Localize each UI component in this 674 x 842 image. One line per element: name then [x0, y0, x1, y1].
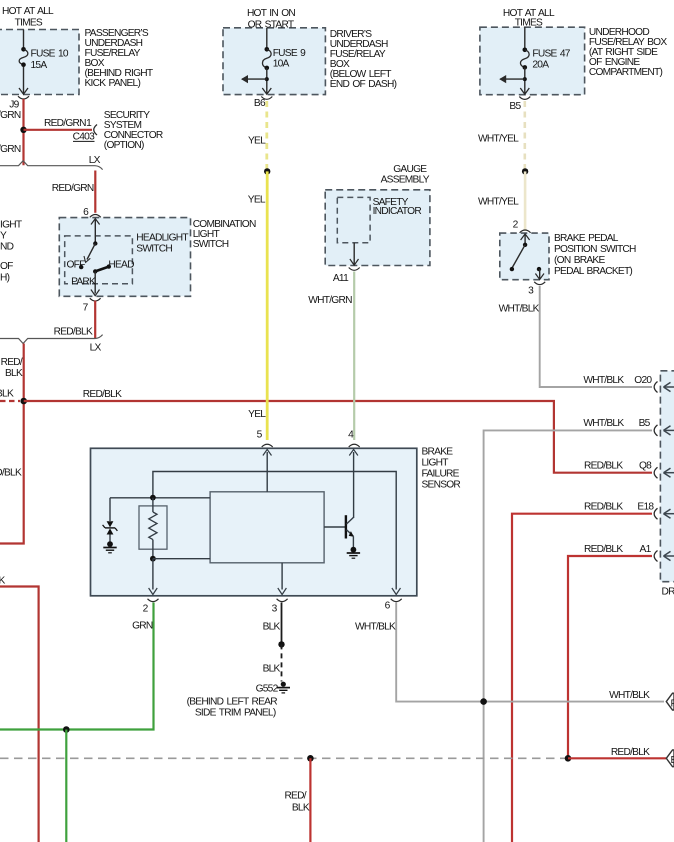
svg-text:WHT/BLK: WHT/BLK: [355, 622, 396, 633]
brake pedal position switch box: [500, 233, 549, 280]
junction main: [20, 398, 27, 405]
svg-text:KICK PANEL): KICK PANEL): [85, 78, 141, 89]
connector pin 7: [83, 298, 101, 313]
svg-text:E18: E18: [637, 502, 654, 513]
svg-text:F: F: [671, 699, 674, 710]
svg-text:B5: B5: [639, 418, 651, 429]
wire red/blk E18: [512, 514, 652, 842]
svg-text:HEAD: HEAD: [108, 259, 134, 270]
junction dot internal top: [150, 495, 156, 501]
connector pin 6 sensor: [385, 599, 402, 612]
gauge assembly box: [325, 190, 430, 266]
svg-text:YEL: YEL: [248, 136, 266, 147]
connector B5 right: [583, 418, 674, 436]
wire yel solid: [266, 171, 269, 440]
internal wire junction-rect bottom: [153, 558, 210, 560]
label HOT AT ALL TIMES right: [503, 8, 555, 29]
svg-text:RED/: RED/: [284, 790, 306, 801]
zener diode D1: [103, 498, 118, 542]
label passenger's box: [85, 28, 153, 89]
label RED/ BLK bottom: [284, 790, 309, 813]
svg-text:OF: OF: [0, 261, 13, 272]
svg-text:BLK: BLK: [0, 576, 5, 587]
svg-text:RED/BLK: RED/BLK: [611, 747, 650, 758]
svg-text:FAILURE: FAILURE: [422, 469, 460, 480]
offpage arrow red/blk: [666, 750, 674, 767]
wire red/blk left vertical: [0, 344, 24, 544]
wire grn branch down: [65, 730, 67, 842]
svg-text:(ON BRAKE: (ON BRAKE: [554, 255, 605, 266]
svg-text:B5: B5: [509, 101, 521, 112]
svg-text:INDICATOR: INDICATOR: [373, 206, 422, 217]
arrow down at box exit right: [520, 88, 529, 94]
svg-text:A1: A1: [640, 544, 652, 555]
svg-text:3: 3: [528, 286, 534, 297]
wire red/grn to C403: [24, 129, 93, 131]
splice junction: [20, 127, 26, 133]
svg-text:G552: G552: [256, 684, 279, 695]
svg-text:BLK: BLK: [5, 368, 23, 379]
underhood fuse/relay box: [480, 27, 585, 95]
svg-text:1: 1: [86, 118, 92, 129]
svg-text:BRAKE PEDAL: BRAKE PEDAL: [554, 233, 619, 244]
second left red wire: [0, 587, 39, 842]
left cut labels: [0, 219, 22, 283]
pin4 internal wire w/ arrow: [349, 449, 358, 518]
svg-text:SWITCH: SWITCH: [193, 239, 229, 250]
svg-text:7: 7: [83, 303, 89, 314]
svg-text:POSITION SWITCH: POSITION SWITCH: [554, 244, 636, 255]
svg-text:15A: 15A: [31, 60, 48, 71]
svg-text:WHT/BLK: WHT/BLK: [609, 690, 650, 701]
pin3 internal wire w/ arrow: [278, 563, 287, 595]
fuse 10 15A: [19, 30, 69, 95]
svg-text:PARK: PARK: [71, 277, 96, 288]
svg-text:YEL: YEL: [248, 409, 266, 420]
label gauge assembly: [381, 164, 430, 186]
label brake light failure sensor: [422, 447, 461, 491]
pin6 internal arrow: [392, 588, 401, 595]
label underhood box: [589, 27, 667, 78]
label C403: [73, 132, 95, 143]
dashed red off-page left: [0, 400, 20, 402]
svg-text:B: B: [671, 755, 674, 766]
svg-text:ASSEMBLY: ASSEMBLY: [381, 175, 430, 186]
driver's underdash fuse/relay box: [223, 28, 325, 95]
svg-text:FUSE 10: FUSE 10: [31, 49, 69, 60]
pin2 internal wire w/ arrow: [149, 559, 158, 595]
right dashed component box: [660, 371, 674, 582]
svg-text:COMPARTMENT): COMPARTMENT): [589, 67, 663, 78]
svg-text:WHT/BLK: WHT/BLK: [583, 418, 624, 429]
splice yel: [264, 168, 270, 174]
svg-text:HOT AT ALL: HOT AT ALL: [2, 6, 54, 17]
transistor Q1: [324, 515, 354, 547]
svg-text:TIMES: TIMES: [15, 18, 43, 29]
label G552: [187, 684, 279, 719]
connector pin 6 arch: [90, 215, 101, 218]
ground G552: [277, 682, 290, 693]
headlight switch symbol: [67, 219, 135, 296]
label HOT AT ALL TIMES: [2, 6, 54, 29]
svg-text:HOT IN ON: HOT IN ON: [247, 8, 295, 19]
svg-text:RED/BLK: RED/BLK: [584, 502, 623, 513]
svg-text:END OF DASH): END OF DASH): [330, 79, 397, 90]
svg-text:RED/BLK: RED/BLK: [584, 461, 623, 472]
svg-text:LIGHT: LIGHT: [422, 458, 449, 469]
wire red/blk pin7 down: [94, 301, 96, 339]
connector E18: [584, 502, 674, 520]
headlight switch inner box: [65, 236, 133, 284]
svg-text:TIMES: TIMES: [515, 18, 543, 29]
svg-text:HEADLIGHT: HEADLIGHT: [136, 232, 188, 243]
svg-text:O20: O20: [634, 375, 652, 386]
svg-text:Q8: Q8: [639, 461, 652, 472]
svg-text:FUSE 9: FUSE 9: [273, 48, 306, 59]
svg-text:WHT/BLK: WHT/BLK: [499, 304, 540, 315]
svg-text:RED/BLK: RED/BLK: [83, 389, 122, 400]
label RED/GRN 1: [44, 118, 92, 129]
svg-text:BLK: BLK: [292, 802, 310, 813]
fuse 47 branch arrow left: [499, 75, 527, 83]
wire wht/yel solid: [524, 171, 527, 231]
label RED/ BLK: [1, 357, 23, 379]
svg-text:WHT/YEL: WHT/YEL: [478, 196, 519, 207]
svg-text:FUSE 47: FUSE 47: [532, 49, 570, 60]
label security system connector: [104, 110, 163, 151]
connector pin 2 sensor: [143, 599, 159, 615]
brake light failure sensor box: [91, 448, 417, 596]
transistor emitter ground: [347, 547, 360, 558]
passenger's underdash fuse/relay box: [0, 30, 79, 95]
svg-text:RED/GRN: RED/GRN: [52, 183, 94, 194]
wire wht/blk pin6: [396, 603, 664, 702]
label driver's box: [330, 29, 397, 90]
wire wht/yel dashed: [523, 101, 526, 171]
connector pin 5 arch: [262, 444, 273, 447]
wire grn: [0, 603, 154, 730]
label safety indicator: [373, 197, 422, 217]
svg-text:RED/GRN: RED/GRN: [0, 144, 21, 155]
combination light switch box: [59, 218, 190, 297]
svg-text:DR: DR: [662, 586, 674, 597]
connector B5: [509, 97, 530, 112]
internal top bus wire to pin 6: [153, 472, 396, 590]
svg-text:SIDE TRIM PANEL): SIDE TRIM PANEL): [195, 708, 276, 719]
svg-text:LX: LX: [89, 155, 101, 166]
svg-text:A11: A11: [333, 273, 349, 284]
svg-text:RED/GRN: RED/GRN: [0, 110, 21, 121]
wire blk pin3: [281, 603, 283, 645]
wire red/grn J9 down: [22, 99, 24, 165]
wire wht/grn: [353, 272, 355, 441]
svg-text:IGHT: IGHT: [0, 219, 22, 230]
svg-text:GRN: GRN: [132, 621, 153, 632]
svg-text:(BEHIND LEFT REAR: (BEHIND LEFT REAR: [187, 697, 278, 708]
main red/blk wire: [24, 401, 652, 473]
svg-text:WHT/GRN: WHT/GRN: [308, 295, 352, 306]
svg-text:WHT/YEL: WHT/YEL: [478, 133, 519, 144]
svg-text:SENSOR: SENSOR: [422, 480, 461, 491]
sensor internal logic rectangle: [210, 492, 324, 563]
wire red/blk bottom right: [568, 757, 666, 759]
junction grn: [63, 726, 70, 733]
svg-text:ND: ND: [0, 242, 14, 253]
svg-text:RED/BLK: RED/BLK: [0, 389, 14, 400]
svg-text:Y: Y: [0, 230, 7, 241]
svg-text:2: 2: [143, 604, 149, 615]
connector pin 3 pedal: [528, 282, 545, 297]
svg-text:5: 5: [257, 430, 263, 441]
fuse 9 branch arrow left: [241, 75, 269, 83]
junction wht/blk: [480, 698, 487, 705]
splice wht/yel: [522, 168, 528, 174]
svg-text:SWITCH: SWITCH: [136, 244, 172, 255]
connector A1: [584, 544, 674, 562]
svg-text:YEL: YEL: [248, 194, 266, 205]
wire blk dashed to ground: [281, 644, 283, 681]
dashed gray wire bottom: [0, 757, 568, 759]
svg-text:OR START: OR START: [248, 20, 294, 31]
fuse 9 10A: [262, 28, 306, 94]
brace LX 1: [0, 161, 103, 170]
diode ground: [103, 541, 116, 553]
svg-text:RED/GRN: RED/GRN: [44, 118, 86, 129]
safety indicator wire down: [350, 243, 359, 265]
resistor R1: [149, 498, 157, 559]
svg-text:(OPTION): (OPTION): [104, 140, 144, 151]
svg-text:WHT/BLK: WHT/BLK: [583, 375, 624, 386]
arrow down at box exit: [262, 88, 271, 94]
svg-text:GAUGE: GAUGE: [393, 164, 427, 175]
offpage arrow wht/blk: [666, 693, 674, 710]
svg-text:20A: 20A: [532, 60, 549, 71]
junction blk: [278, 641, 284, 647]
junction dashed/red right: [565, 755, 572, 762]
safety indicator inner box: [337, 197, 370, 242]
connector pin 3 sensor: [272, 599, 288, 615]
label brake pedal position switch: [554, 233, 636, 277]
connector J9: [9, 96, 29, 110]
connector Q8: [584, 461, 674, 479]
svg-text:OFF: OFF: [67, 259, 86, 270]
connector pin 2 arch: [520, 230, 531, 233]
label headlight switch: [136, 232, 188, 254]
svg-text:RED/BLK: RED/BLK: [584, 544, 623, 555]
svg-text:H): H): [0, 273, 10, 284]
wire wht/blk B5: [484, 430, 652, 842]
svg-text:10A: 10A: [273, 59, 290, 70]
connector C403 half circle: [94, 125, 97, 136]
connector pin 4 arch: [349, 444, 360, 447]
svg-text:RED/BLK: RED/BLK: [0, 468, 22, 479]
svg-text:3: 3: [272, 604, 278, 615]
svg-text:PEDAL BRACKET): PEDAL BRACKET): [554, 266, 632, 277]
pedal switch symbol: [510, 234, 544, 280]
label HOT IN ON OR START: [247, 8, 295, 31]
pin5 internal wire w/ arrow: [263, 449, 272, 491]
wire red/blk A1: [568, 556, 652, 758]
svg-text:6: 6: [385, 601, 391, 612]
svg-text:BLK: BLK: [263, 664, 281, 675]
wire red/blk bottom mid: [309, 758, 311, 842]
wire wht/blk pedal to O20: [540, 286, 652, 387]
junction dot internal bottom: [150, 556, 156, 562]
svg-text:LX: LX: [90, 343, 102, 354]
connector B6: [254, 97, 272, 110]
connector A11: [333, 268, 360, 285]
internal wire diode-junction-rect: [110, 497, 210, 499]
wire yel dashed: [265, 101, 268, 171]
fuse 47 20A: [520, 27, 570, 93]
wire red/grn below brace: [94, 171, 96, 213]
svg-text:RED/BLK: RED/BLK: [54, 326, 93, 337]
svg-text:2: 2: [513, 220, 519, 231]
svg-text:6: 6: [83, 207, 89, 218]
junction dashed/red mid: [307, 755, 314, 762]
svg-text:C403: C403: [73, 132, 95, 143]
brace LX 2: [0, 335, 103, 344]
svg-text:BLK: BLK: [263, 622, 281, 633]
svg-text:BRAKE: BRAKE: [422, 447, 454, 458]
svg-text:RED/: RED/: [1, 357, 23, 368]
label combination light switch: [193, 219, 256, 250]
resistor R1 box: [139, 506, 167, 549]
svg-text:B6: B6: [254, 98, 266, 109]
connector O20: [583, 375, 674, 393]
